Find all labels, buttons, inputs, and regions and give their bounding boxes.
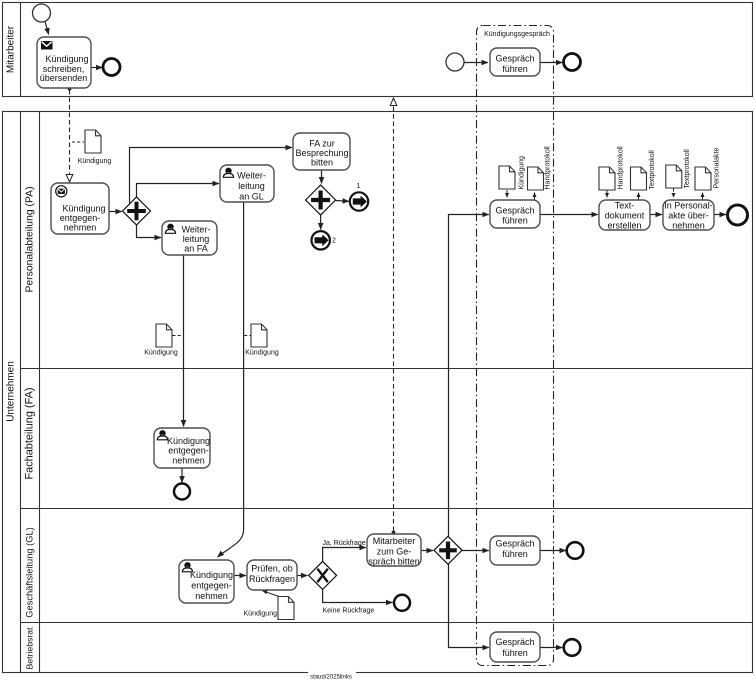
document D2 Kündigung FA left <box>144 324 178 357</box>
document D5 Kündigung PA <box>499 156 526 190</box>
gateway G3 XOR <box>309 561 337 589</box>
task T15 Gespräch führen Mitarbeiter <box>490 48 540 76</box>
svg-text:staud/2025links: staud/2025links <box>310 675 352 680</box>
svg-text:nehmen: nehmen <box>172 455 205 465</box>
task T14 Gespräch führen Betriebsrat <box>490 632 540 662</box>
svg-text:spräch bitten: spräch bitten <box>368 557 420 567</box>
svg-text:entgegen-: entgegen- <box>60 213 101 223</box>
message flow T1→T2 <box>69 90 71 175</box>
svg-text:Gespräch: Gespräch <box>495 205 534 215</box>
end event GL keine Rückfrage <box>394 595 410 611</box>
wire T10→T11 <box>234 575 246 577</box>
task T13 Gespräch führen GL <box>490 536 540 565</box>
task T8 In Personalakte übernehmen <box>663 200 714 231</box>
svg-text:1: 1 <box>357 183 361 190</box>
svg-text:leitung: leitung <box>183 234 210 244</box>
end event Mitarbeiter <box>103 59 120 76</box>
task T1 Kündigung schreiben übersenden <box>37 37 91 88</box>
svg-text:dokument: dokument <box>605 211 645 221</box>
svg-text:nehmen: nehmen <box>672 221 705 231</box>
svg-text:nehmen: nehmen <box>195 591 228 601</box>
message flow T12→Mitarbeiter pool <box>393 105 395 531</box>
svg-text:führen: führen <box>502 216 528 226</box>
svg-text:Besprechung: Besprechung <box>295 148 348 158</box>
svg-text:2: 2 <box>332 238 336 245</box>
svg-text:führen: führen <box>502 648 528 658</box>
svg-text:Geschäftsleitung (GL): Geschäftsleitung (GL) <box>25 527 35 617</box>
svg-text:In Personal-: In Personal- <box>664 201 713 211</box>
wire T8→PA end <box>714 214 726 216</box>
wire T6→T7 <box>540 214 598 216</box>
wire start→task T1 <box>45 22 49 35</box>
wire T4→T9 <box>183 255 185 427</box>
svg-text:Gespräch: Gespräch <box>495 637 534 647</box>
gateway G4 parallel <box>434 536 462 564</box>
GROUP Kündigungsgespräch <box>477 26 554 666</box>
document D3 Kündigung FA right <box>245 324 279 357</box>
svg-text:Weiter-: Weiter- <box>237 171 266 181</box>
svg-text:Textprotokoll: Textprotokoll <box>684 149 691 189</box>
svg-text:Keine Rückfrage: Keine Rückfrage <box>323 608 375 615</box>
wire G1→T4 Weiterleitung an FA <box>137 225 162 238</box>
start event Mitarbeiter right <box>446 53 464 71</box>
document D8 Textprotokoll <box>631 150 657 190</box>
wire start right→T15 <box>464 62 488 64</box>
link event 2 <box>312 231 337 249</box>
end event Betriebsrat <box>564 639 581 656</box>
svg-text:Unternehmen: Unternehmen <box>6 361 17 422</box>
message dot T12 <box>392 531 396 535</box>
svg-text:Rückfragen: Rückfragen <box>249 574 295 584</box>
lane divider FA/GL <box>21 508 753 510</box>
task T4 Weiterleitung an FA <box>162 221 217 255</box>
svg-text:Kündigung: Kündigung <box>244 611 278 618</box>
wire T13→GL end <box>540 550 566 552</box>
end event Mitarbeiter right <box>564 54 581 71</box>
svg-text:Prüfen, ob: Prüfen, ob <box>251 564 293 574</box>
svg-text:Gespräch: Gespräch <box>495 54 534 64</box>
wire T5→G2 <box>321 170 323 184</box>
svg-text:führen: führen <box>502 64 528 74</box>
svg-text:Kündigung: Kündigung <box>45 54 88 64</box>
svg-text:akte über-: akte über- <box>668 211 709 221</box>
svg-text:Kündigung: Kündigung <box>62 203 105 213</box>
message arrowhead down at T2 <box>66 175 73 183</box>
svg-text:Mitarbeiter: Mitarbeiter <box>6 25 17 73</box>
svg-text:an GL: an GL <box>239 191 264 201</box>
svg-text:Kündigung: Kündigung <box>190 570 233 580</box>
svg-text:Text-: Text- <box>615 201 635 211</box>
task T2 Kündigung entgegennehmen PA <box>51 183 109 234</box>
end event FA <box>174 484 190 500</box>
svg-text:zum Ge-: zum Ge- <box>377 546 412 556</box>
svg-text:entgegen-: entgegen- <box>168 446 209 456</box>
DATA ASSOCIATIONS <box>72 142 703 599</box>
task T6 Gespräch führen PA <box>490 200 540 228</box>
task T7 Textdokument erstellen <box>599 200 650 231</box>
svg-text:führen: führen <box>502 549 528 559</box>
assoc doc D3 to wire <box>244 335 250 337</box>
task T9 Kündigung entgegennehmen FA <box>154 428 210 468</box>
document D6 Handprotokoll <box>528 146 552 190</box>
assoc doc D2 to wire <box>173 335 183 337</box>
wire T12→G4 <box>421 550 433 552</box>
wire G2→link event 2 <box>320 215 322 229</box>
svg-text:FA zur: FA zur <box>309 138 335 148</box>
assoc T7→D8 <box>638 193 640 201</box>
wire T1→end <box>91 67 103 69</box>
wire T3→T10 curved <box>218 202 244 557</box>
svg-text:Kündigung: Kündigung <box>78 158 112 165</box>
svg-text:erstellen: erstellen <box>607 221 641 231</box>
message dot T1 <box>68 87 72 91</box>
wire G4 down →T14 Betriebsrat <box>449 564 489 648</box>
assoc D7→T7 <box>606 190 608 198</box>
assoc T6→D6 <box>534 193 536 201</box>
svg-text:Kündigung: Kündigung <box>519 156 526 190</box>
svg-text:Personalabteilung (PA): Personalabteilung (PA) <box>25 186 36 292</box>
svg-text:Handprotokoll: Handprotokoll <box>545 146 552 190</box>
MESSAGE FLOWS dashed <box>70 90 394 531</box>
svg-text:bitten: bitten <box>311 158 333 168</box>
task T10 Kündigung entgegennehmen GL <box>179 560 234 603</box>
wire T11→XOR G3 <box>297 575 308 577</box>
svg-text:Personalakte: Personalakte <box>714 148 721 189</box>
task T12 Mitarbeiter zum Gespräch bitten <box>367 534 421 567</box>
document D9 Textprotokoll <box>666 149 691 189</box>
assoc doc D1 to message flow <box>72 141 84 143</box>
wire T2→gateway G1 <box>109 211 122 213</box>
svg-text:Kündigung: Kündigung <box>144 350 178 357</box>
gateway G1 parallel <box>123 197 151 225</box>
svg-text:leitung: leitung <box>238 181 265 191</box>
assoc D9→T8 <box>673 189 675 198</box>
end event PA <box>728 205 748 225</box>
lane divider GL/Betriebsrat <box>21 622 753 624</box>
POOL Mitarbeiter <box>3 3 753 97</box>
assoc T8→D10 <box>702 193 704 201</box>
document D4 Kündigung GL <box>244 597 294 620</box>
assoc D5→T6 <box>506 190 508 198</box>
wire T14→Betriebsrat end <box>540 647 562 649</box>
svg-text:Textprotokoll: Textprotokoll <box>649 150 656 190</box>
svg-text:Ja, Rückfrage: Ja, Rückfrage <box>323 540 366 547</box>
lane divider PA/FA <box>21 368 753 370</box>
svg-text:Kündigung: Kündigung <box>245 350 279 357</box>
wire G4 up →T6 Gespräch führen PA <box>449 215 489 537</box>
svg-text:an FA: an FA <box>184 244 208 254</box>
svg-text:übersenden: übersenden <box>40 73 88 83</box>
document D10 Personalakte <box>695 148 721 190</box>
svg-text:Betriebsrat: Betriebsrat <box>25 627 35 670</box>
task T5 FA zur Besprechung bitten <box>293 133 350 170</box>
svg-text:Gespräch: Gespräch <box>495 539 534 549</box>
end event GL <box>567 542 584 559</box>
message arrowhead up at pool <box>390 98 397 106</box>
task T11 Prüfen ob Rückfragen <box>247 560 297 590</box>
assoc doc D4→T11 <box>263 591 286 599</box>
svg-text:Handprotokoll: Handprotokoll <box>618 146 625 190</box>
gateway G2 parallel <box>306 185 336 215</box>
link event 1 <box>350 183 368 211</box>
svg-text:Kündigungsgespräch: Kündigungsgespräch <box>484 31 550 38</box>
svg-text:nehmen: nehmen <box>64 223 97 233</box>
wire G4→T13 <box>462 550 489 552</box>
wire G3→GL end Keine Rückfrage <box>323 589 393 603</box>
wire G1→T5 FA zur Besprechung <box>130 148 293 204</box>
caption white gap <box>308 669 356 680</box>
wire T7→T8 <box>650 214 662 216</box>
wire G2→link event 1 <box>336 200 349 203</box>
task T3 Weiterleitung an GL <box>220 165 274 202</box>
wire T15→end right <box>540 62 562 64</box>
wire G3→T12 Ja Rückfrage <box>323 548 366 562</box>
svg-text:Weiter-: Weiter- <box>182 224 211 234</box>
start event Mitarbeiter <box>33 4 51 22</box>
svg-text:Kündigung: Kündigung <box>167 436 210 446</box>
svg-text:Fachabteilung (FA): Fachabteilung (FA) <box>24 387 36 479</box>
document D7 Handprotokoll <box>599 146 625 190</box>
wire T9→FA end <box>181 468 183 483</box>
svg-text:entgegen-: entgegen- <box>191 581 232 591</box>
svg-text:Mitarbeiter: Mitarbeiter <box>373 536 416 546</box>
wire G1→T3 Weiterleitung an GL <box>137 184 220 198</box>
document D1 Kündigung <box>78 130 112 165</box>
